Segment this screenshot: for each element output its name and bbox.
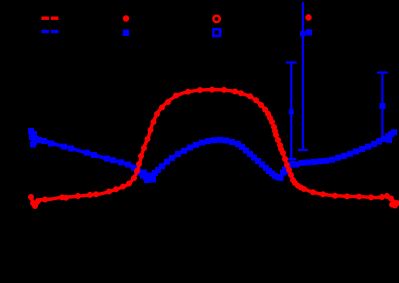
- blue curve markers: [28, 128, 397, 183]
- legend blue dashed line sample: [41, 30, 58, 33]
- red curve line: [31, 90, 398, 206]
- blue error bar tall: [298, 2, 308, 150]
- red curve markers: [28, 87, 399, 209]
- legend red open circle: [213, 16, 219, 22]
- blue error bar left marker: [289, 109, 294, 114]
- blue error bar left: [286, 63, 297, 160]
- blue curve line: [31, 130, 395, 179]
- blue error bar tall marker: [300, 31, 306, 37]
- legend red filled circle 2: [305, 14, 311, 20]
- blue error bar right: [377, 73, 388, 140]
- legend blue filled square: [123, 30, 129, 36]
- legend blue filled square 2: [306, 29, 312, 35]
- legend red dashed line sample: [41, 17, 58, 20]
- legend red filled circle: [123, 15, 129, 21]
- legend blue open square: [213, 29, 220, 36]
- blue error bar right marker: [379, 103, 385, 109]
